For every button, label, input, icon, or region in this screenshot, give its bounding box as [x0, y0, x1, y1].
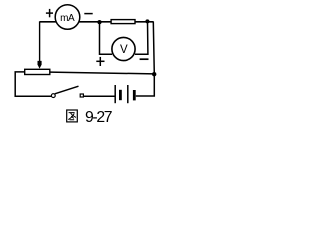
svg-text:mA: mA [60, 13, 75, 24]
svg-text:9-27: 9-27 [85, 109, 112, 124]
svg-text:V: V [120, 44, 128, 56]
